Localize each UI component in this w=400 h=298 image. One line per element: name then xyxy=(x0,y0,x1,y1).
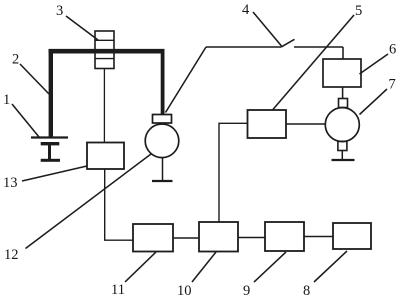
leader 11 xyxy=(125,252,156,282)
electrode arm left thick column (2) xyxy=(49,49,53,138)
leader 7 xyxy=(360,89,388,115)
svg-text:1: 1 xyxy=(3,92,10,108)
wire box 10 to box 9 xyxy=(238,237,265,239)
electrode arm top thick bar xyxy=(49,49,165,54)
wire box 6 to motor 7 xyxy=(342,87,344,99)
svg-text:7: 7 xyxy=(389,77,396,93)
leader 2 xyxy=(20,64,49,94)
leader 12 xyxy=(26,154,152,249)
svg-text:10: 10 xyxy=(177,283,192,298)
box 13 xyxy=(87,143,124,170)
motor 12 stand stem xyxy=(162,158,164,181)
spindle block on motor 12 xyxy=(153,115,172,124)
svg-text:4: 4 xyxy=(242,2,250,18)
box 10 xyxy=(199,222,238,252)
svg-text:11: 11 xyxy=(111,282,125,298)
svg-text:3: 3 xyxy=(56,3,63,19)
leader 9 xyxy=(254,252,286,282)
wire 4 diagonal from arm xyxy=(166,47,207,113)
wire box 5 to motor 7 xyxy=(286,123,325,125)
coupling square top of motor 7 xyxy=(339,99,348,108)
leader 1 xyxy=(12,104,39,137)
leader 4 xyxy=(253,12,282,46)
wire box 13 to bottom bus xyxy=(105,169,133,240)
motor circle 12 xyxy=(145,124,179,158)
svg-text:2: 2 xyxy=(12,52,19,68)
wire 4 horizontal left xyxy=(206,46,282,48)
svg-text:8: 8 xyxy=(303,283,310,298)
leader 10 xyxy=(192,252,216,282)
box 9 xyxy=(265,222,304,251)
svg-text:13: 13 xyxy=(3,175,18,191)
workpiece plate (1) xyxy=(31,136,68,138)
motor circle 7 xyxy=(325,108,359,142)
wire box 9 to box 8 xyxy=(304,236,333,238)
coupling square bottom of motor 7 xyxy=(338,141,347,150)
motor 7 stand bar xyxy=(332,159,355,161)
leader 5 xyxy=(273,15,355,110)
box 11 xyxy=(133,224,173,252)
box 8 xyxy=(333,223,371,249)
motor 12 stand bar xyxy=(152,180,173,182)
leader 6 xyxy=(360,54,389,74)
wire stack to box 13 xyxy=(103,69,105,143)
svg-text:12: 12 xyxy=(4,247,19,263)
box 5 xyxy=(248,110,287,138)
box 6 xyxy=(323,59,361,87)
wire box 11 to box 10 xyxy=(173,237,199,239)
table foot bar xyxy=(41,159,60,162)
wire 4 horizontal right xyxy=(294,46,343,48)
svg-text:5: 5 xyxy=(355,3,362,19)
leader 3 xyxy=(66,16,98,40)
stack 3 divider upper xyxy=(95,39,114,41)
table stem xyxy=(48,145,51,159)
switch blade 4 xyxy=(282,39,295,47)
leader 13 xyxy=(22,166,87,181)
motor 7 stand stem xyxy=(341,151,343,160)
stack 3 body xyxy=(95,31,114,69)
svg-text:9: 9 xyxy=(243,283,250,298)
wire box 5 to box 10 xyxy=(219,123,248,222)
wire down into box 6 xyxy=(342,47,344,59)
svg-text:6: 6 xyxy=(389,42,396,58)
leader 8 xyxy=(314,251,347,282)
stack 3 divider lower xyxy=(95,58,114,60)
table top bar xyxy=(41,142,60,145)
electrode arm right thick column xyxy=(161,49,165,115)
